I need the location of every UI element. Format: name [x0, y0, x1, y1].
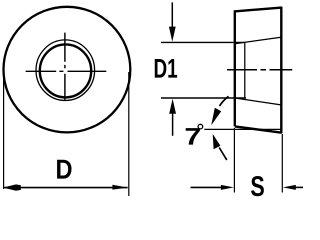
outer circle (insert OD, top view) [4, 7, 131, 133]
vertical centerline [64, 33, 66, 101]
label S [251, 176, 264, 196]
D dim arrowhead right [112, 185, 128, 190]
hole circle (thick) [40, 44, 91, 97]
side view bottom edge (7deg flank) [235, 126, 282, 132]
label 7 [186, 128, 200, 145]
S left arrow [191, 186, 226, 188]
7deg horizontal ray [204, 128, 281, 130]
D dim arrowhead left [3, 184, 21, 190]
side view right edge [280, 7, 282, 134]
side view centerline [227, 69, 292, 71]
side view left edge [234, 10, 236, 126]
D1 lower arrow [172, 111, 174, 136]
degree symbol [198, 124, 203, 129]
lower cone line [236, 98, 282, 105]
D extension line right [128, 72, 130, 196]
D extension line left [3, 72, 5, 189]
side view top edge [234, 8, 281, 12]
S extension line left [233, 128, 235, 193]
label D1 [155, 59, 177, 78]
label D [57, 160, 71, 179]
S extension line right [281, 134, 283, 193]
hole bore line (vertical thin) [244, 42, 246, 98]
D1 upper arrow [171, 2, 173, 29]
D1 lower extension line [161, 97, 246, 99]
hole chamfer circle (thin) [36, 40, 95, 101]
7deg lower leader [219, 148, 227, 161]
7deg upper leader [220, 96, 229, 106]
S right arrow [294, 186, 303, 188]
horizontal centerline [26, 70, 107, 72]
D1 upper extension line [161, 41, 245, 43]
D dimension line [4, 187, 127, 189]
upper cone line [236, 37, 282, 43]
